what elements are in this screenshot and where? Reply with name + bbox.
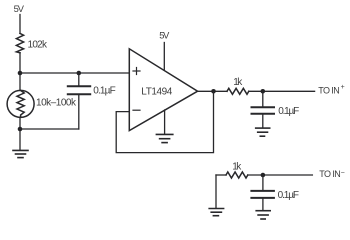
node junction R3/C3 <box>261 173 266 178</box>
wire main node to op-amp + input <box>20 72 129 74</box>
wire op-amp output <box>198 90 227 92</box>
wire C1 top to main wire <box>78 73 80 85</box>
op-amp U1 LT1494 triangle <box>129 49 197 131</box>
wire thermistor bottom to ground <box>19 117 21 149</box>
wire 5V to R1 top <box>19 15 21 34</box>
wire node to C2 top <box>262 91 264 106</box>
capacitor C1 0.1uF <box>68 86 90 94</box>
node junction R1/thermistor/main wire <box>18 71 23 76</box>
wire bottom horizontal to C1 <box>20 128 79 130</box>
svg-text:−: − <box>341 170 345 177</box>
node junction C1/main wire <box>77 71 82 76</box>
svg-text:10k–100k: 10k–100k <box>36 97 77 108</box>
wire R3 to TO IN- <box>248 174 313 176</box>
bottom network: wire ground riser <box>215 175 217 208</box>
node junction thermistor/ground/C1 bottom <box>18 127 23 132</box>
svg-text:TO IN: TO IN <box>318 85 340 95</box>
svg-text:1k: 1k <box>233 77 243 88</box>
wire vertical up to C1 bottom plate <box>78 95 80 129</box>
resistor R3 1k <box>226 172 248 178</box>
svg-text:LT1494: LT1494 <box>141 87 172 98</box>
wire R2 to TO IN+ <box>249 90 315 92</box>
resistor R2 1k <box>227 88 249 94</box>
capacitor C3 0.1uF <box>251 191 274 198</box>
wire C2 bottom to ground <box>262 115 264 128</box>
svg-text:TO IN: TO IN <box>319 169 341 179</box>
op-amp plus input symbol <box>133 68 140 75</box>
svg-text:+: + <box>341 84 345 91</box>
svg-text:5V: 5V <box>14 4 25 14</box>
thermistor RT1 circle <box>7 90 34 117</box>
wire 5V supply to op-amp top <box>163 43 165 71</box>
thermistor RT1 zigzag <box>17 90 24 117</box>
wire to R3 <box>216 174 226 176</box>
feedback wire output to minus input <box>116 91 213 152</box>
wire C3 bottom to ground <box>262 199 264 210</box>
capacitor C2 0.1uF <box>252 107 275 113</box>
node junction output/feedback <box>211 89 216 94</box>
wire R1 bottom to thermistor top <box>19 53 21 91</box>
svg-text:102k: 102k <box>28 40 49 51</box>
ground G5 (C3) <box>256 211 270 219</box>
op-amp minus input symbol <box>133 109 140 111</box>
wire node to C3 top <box>262 175 264 190</box>
ground G2 (op-amp) <box>156 134 172 142</box>
wire op-amp bottom to ground <box>164 110 166 134</box>
svg-text:0.1µF: 0.1µF <box>93 85 116 96</box>
svg-text:0.1µF: 0.1µF <box>278 106 299 117</box>
svg-text:1k: 1k <box>232 161 242 172</box>
ground G3 (C2) <box>256 128 270 136</box>
ground G1 <box>13 150 28 157</box>
node junction R2/C2 <box>261 89 266 94</box>
svg-text:5V: 5V <box>159 30 170 40</box>
svg-text:0.1µF: 0.1µF <box>278 190 299 201</box>
ground G4 (bottom left) <box>209 209 223 216</box>
resistor R1 102k <box>16 33 23 52</box>
